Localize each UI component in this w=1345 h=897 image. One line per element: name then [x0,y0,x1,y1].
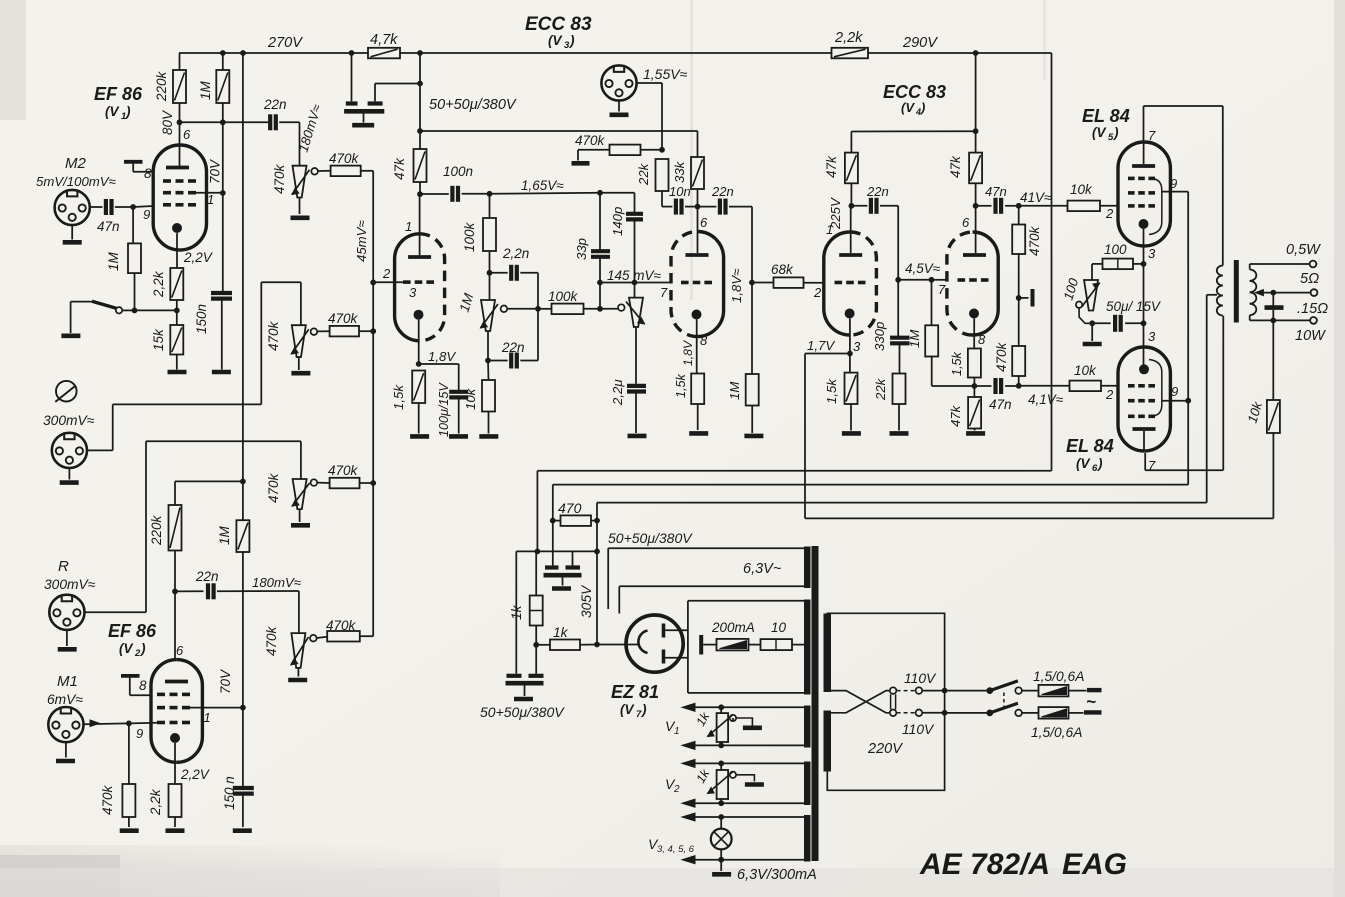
wire V2 cathode lead [174,743,176,784]
wire R3 to bus [360,482,374,484]
wire 47k V3 feed [419,53,421,149]
wire screens line [553,484,1188,486]
wiper 1k V2 [730,772,736,778]
switch input shorting [132,308,138,314]
resistor 470k (V3b grid ref) [578,149,610,151]
svg-text:10: 10 [771,620,787,635]
svg-text:1,5k: 1,5k [391,384,406,410]
resistor 1M (V4 grid leak) [746,374,759,406]
svg-text:7: 7 [1148,128,1156,143]
svg-text:2: 2 [1105,206,1114,221]
resistor 2.2k (V1 cathode) [170,268,183,300]
wire V3b pin6 anode [697,207,699,253]
fuse 200mA [703,644,716,646]
tube EL84 V5 outline [1144,142,1170,246]
svg-text:1k: 1k [553,625,569,640]
wire V2 pin6 lead [174,551,176,661]
svg-text:M1: M1 [57,673,78,690]
svg-text:2,2μ: 2,2μ [610,379,625,406]
svg-text:): ) [568,33,575,48]
svg-text:33k: 33k [672,160,687,183]
wire 6.3V heater loop [608,547,804,549]
svg-text:300mV≈: 300mV≈ [44,577,96,592]
capacitor 2.2u (P6 foot) [635,327,637,384]
wiper P2 [311,328,318,335]
wire V1 pin8 shield bracket [124,160,143,164]
wire 22n to P4 [298,591,300,633]
svg-text:10W: 10W [1295,328,1326,344]
svg-text:(V: (V [620,702,634,717]
resistor 1k (horizontal) [536,644,550,646]
resistor 220k (V2 anode load) [169,505,182,551]
resistor 10k (V5 grid stopper) [1019,205,1068,207]
wire V1 pin1 (screen) to 70V line [189,192,223,194]
svg-text:1,65V≈: 1,65V≈ [521,178,564,193]
terminal mains bottom [1069,712,1084,714]
svg-text:70V: 70V [218,668,233,694]
svg-text:47k: 47k [948,404,963,427]
tube V2 anode bar [165,680,188,684]
wire V1 anode node 80V [180,121,270,123]
switch mains double pole [986,687,993,694]
tube V4b grid row [958,278,966,282]
capacitor chassis tab (V5 grid) [1019,297,1029,299]
resistor 100k (to tone pot) [489,194,491,218]
svg-text:145 mV≈: 145 mV≈ [607,268,662,283]
svg-text:EL 84: EL 84 [1082,106,1130,126]
svg-text:2: 2 [382,266,391,281]
svg-text:100n: 100n [443,164,473,179]
tube V5 grid rows [1128,177,1135,181]
resistor 22k (V4b grid) [893,374,906,405]
svg-text:110V: 110V [904,671,937,686]
transformer PT secondary bars [804,547,811,589]
svg-text:220V: 220V [867,741,903,757]
wire V2 screen feed from 70V line [175,480,243,482]
resistor 470k (V2 grid leak) [128,723,130,784]
connector R input [49,595,84,630]
wire V1 pin9 grid [130,204,136,210]
wire heater V2 row [682,759,695,767]
resistor 47k (V4b cathode lower) [973,386,975,397]
svg-text:4,7k: 4,7k [370,32,398,48]
svg-text:47k: 47k [392,157,407,180]
resistor 10k (V6 grid stopper) [1019,385,1070,387]
junction V4b anode [973,203,979,209]
svg-text:4,5V≈: 4,5V≈ [905,261,941,276]
resistor 22k [656,159,669,191]
svg-text:1: 1 [207,192,214,207]
tube V3a grid row [403,280,411,284]
wire switch to cathode node [135,309,177,311]
tube V4a grid row [835,281,843,285]
transformer OT secondary coil [1250,270,1257,281]
wire 270V supply rail [179,52,368,54]
svg-text:(V: (V [119,641,133,656]
wire heater pilot row [682,813,695,821]
wire NFB return [805,517,1273,519]
resistor 33k [691,157,704,189]
wire V3a grid pin2 [373,281,403,283]
resistor 2.2k (V2 cathode) [169,784,182,817]
svg-text:45mV≈: 45mV≈ [354,220,369,262]
capacitor 22n (V3b out) [698,206,717,208]
wire heater V1 row [682,703,695,711]
transformer PT primary bars [824,614,832,693]
tube V5 cathode [1139,219,1149,229]
svg-text:10n: 10n [669,184,691,199]
svg-text:1M: 1M [106,251,121,271]
wire mixing bus [361,170,374,172]
svg-text:M2: M2 [65,155,86,172]
resistor 2.2k (rail dropper 290V) [832,48,869,59]
wire rail right drop [1051,53,1053,471]
wire V5 pin7 anode [1143,106,1145,142]
wire V3a cathode pin3 [418,320,420,364]
resistor 220k (V1 anode load) [179,53,181,70]
svg-text:1,5k: 1,5k [950,351,964,376]
junction 100n/100k [487,191,493,197]
wire V2 pin8 bracket [121,674,140,678]
wire 1.55V to node [637,82,662,84]
tube EZ81 cathode arc [638,631,647,654]
fuse 1.5/0.6A bottom [1022,712,1039,714]
svg-text:EL 84: EL 84 [1066,436,1114,456]
svg-text:1: 1 [826,222,833,237]
resistor 1M (V2 screen feed) [236,520,249,552]
svg-text:470k: 470k [1027,225,1042,256]
svg-text:8: 8 [978,332,986,347]
tube ECC83 V4a outline [850,232,876,335]
wire V4b cathode pin8 [973,319,975,349]
tube V3b anode bar [686,253,709,257]
svg-text:22n: 22n [711,184,734,199]
svg-text:6: 6 [183,127,191,142]
svg-text:6: 6 [962,215,970,230]
ground P4 [297,668,299,677]
transformer OT core [1234,260,1239,323]
svg-text:2: 2 [134,648,141,659]
resistor 1.5k (V4a cathode) [845,373,858,404]
junction hum/ground [1089,320,1095,326]
svg-text:2: 2 [1105,387,1114,402]
potentiometer 470k P1 [293,166,307,198]
tube V1 anode bar [166,166,189,170]
connector M2 input [55,190,90,225]
capacitor 150n (V2 screen decoupling) [233,786,254,790]
svg-text:150 n: 150 n [222,776,237,810]
svg-text:10k: 10k [1074,363,1097,378]
resistor 1.5k (V3a cathode) [412,371,425,404]
potentiometer 1k (V2 hum) [720,763,722,770]
junction rail/70V line [240,50,246,56]
wire phono to P2 [87,449,113,451]
wire selector dashed [897,690,916,692]
capacitor 100n (coupling) [420,193,449,195]
svg-text:22n: 22n [866,184,889,199]
tube V6 cathode [1139,364,1149,374]
svg-text:ECC 83: ECC 83 [883,82,946,102]
tube V3a anode bar [408,255,431,259]
svg-text:EF 86: EF 86 [94,84,143,104]
resistor 1.5k (V4b cathode) [968,349,981,378]
tube V4b anode bar [963,253,986,257]
capacitor 2.2n (tone) [490,272,508,274]
svg-text:R: R [58,558,69,575]
capacitor 50+50u/380V (screen filter) [552,521,554,566]
tube EZ81 plate top [662,624,666,638]
wiper P4 [310,635,317,642]
potentiometer 1k (V1 hum) [720,707,722,713]
transformer PT core [812,546,819,861]
tube V5 anode bar [1132,164,1155,168]
resistor 470k (mix R1) [331,166,361,177]
tube EL84 V6 outline [1144,347,1170,451]
svg-text:220k: 220k [154,70,169,102]
svg-text:470k: 470k [272,163,287,194]
svg-text:470k: 470k [266,472,281,503]
resistor 470 (screen feed) [550,518,556,524]
resistor 470k (mix R4) [327,631,360,642]
svg-text:47n: 47n [989,397,1012,412]
svg-text:EZ 81: EZ 81 [611,682,659,702]
junction rail/filter cap [349,50,355,56]
resistor .15 ohm [1272,293,1274,306]
wire 145mV to V3b grid [600,282,671,284]
switch voltage selector link [890,687,897,694]
svg-text:2,2V: 2,2V [183,250,214,265]
svg-text:0,5W: 0,5W [1286,242,1321,258]
svg-text:1,5/0,6A: 1,5/0,6A [1033,669,1084,684]
svg-text:2,2k: 2,2k [151,270,166,298]
svg-text:1M: 1M [217,525,232,545]
svg-text:6,3V/300mA: 6,3V/300mA [737,867,817,883]
svg-text:9: 9 [1170,176,1177,191]
svg-text:5Ω: 5Ω [1300,271,1319,287]
svg-text:6,3V~: 6,3V~ [743,561,782,577]
svg-text:8: 8 [144,166,152,181]
junction V4a anode [849,203,855,209]
svg-text:2,2k: 2,2k [834,30,863,46]
wire 100 to hum pot [1092,263,1103,265]
svg-text:2: 2 [673,784,680,795]
tube V5 shield curve [1149,178,1162,234]
ground pilot [720,860,722,871]
capacitor 22n (V2 output) [175,590,204,592]
svg-text:4,1V≈: 4,1V≈ [1028,392,1064,407]
wiper P1 [311,168,318,175]
svg-text:50+50μ/380V: 50+50μ/380V [608,530,693,546]
resistor 1k (vertical) [535,551,537,595]
wire B+ to OT center tap [597,502,1207,504]
capacitor 33p [599,193,601,250]
junction V3b anode node [695,204,701,210]
wire R4 to bus end [360,635,373,637]
svg-text:50+50μ/380V: 50+50μ/380V [429,97,517,113]
resistor 47k (V4b anode) [969,153,982,184]
resistor 10k (NFB) [1272,320,1274,400]
svg-text:(V: (V [548,33,562,48]
svg-text:41V≈: 41V≈ [1020,190,1052,205]
wire B+ node [537,550,597,552]
svg-text:3: 3 [1148,246,1156,261]
potentiometer 470k P3 [293,479,307,509]
svg-text:22n: 22n [195,569,219,584]
svg-text:10k: 10k [463,387,478,410]
svg-text:AE 782/A: AE 782/A [919,848,1050,881]
wire V6 pin7 anode [1144,453,1146,470]
capacitor 22n (tone lower) [487,331,489,361]
tube V1 cathode [172,223,182,233]
wire 70V line (long vertical) [242,53,244,520]
svg-text:): ) [1096,456,1103,471]
ground P2 [298,357,300,370]
svg-text:EF 86: EF 86 [108,621,157,641]
capacitor 330p [897,280,899,337]
resistor 100 (cathode) [1103,259,1134,270]
svg-text:6: 6 [176,643,184,658]
svg-text:9: 9 [143,207,150,222]
wire M1 to V2 pin9 [90,720,100,727]
transformer OT primary coil [1217,266,1223,276]
svg-text:3, 4, 5, 6: 3, 4, 5, 6 [657,844,695,855]
svg-text:ECC 83: ECC 83 [525,14,592,35]
svg-text:470k: 470k [575,133,606,148]
capacitor 150n (V1 screen decoupling) [211,291,232,295]
lamp pilot [720,817,722,829]
svg-text:50+50μ/380V: 50+50μ/380V [480,704,565,720]
wire EZ81 plates to HV winding [665,629,688,631]
tube ECC83 V3b outline [671,231,697,336]
resistor 1M (V1 grid leak) [132,207,134,243]
svg-text:22k: 22k [873,377,888,401]
fuse 1.5/0.6A top [1022,690,1039,692]
svg-text:(V: (V [1076,456,1090,471]
wire to pot P1 [299,122,301,165]
potentiometer 100 (hum) [1084,280,1098,311]
tube V2 grid rows [157,693,165,697]
tube EF86 V2 outline [177,660,203,763]
svg-text:1M: 1M [907,330,922,348]
svg-text:1,55V≈: 1,55V≈ [643,66,688,82]
svg-text:15k: 15k [151,328,166,351]
svg-text:): ) [1112,125,1119,140]
svg-text:): ) [640,702,647,717]
connector 1.55V (test) [601,65,636,100]
resistor 1.5k (V3b cathode) [691,374,704,405]
svg-text:470k: 470k [329,151,360,166]
tube V4a cathode [845,309,855,319]
wire OT center tap [1207,294,1217,296]
svg-text:300mV≈: 300mV≈ [43,413,95,428]
svg-text:(V: (V [1092,125,1106,140]
wire R to P3 [85,611,147,613]
svg-text:10k: 10k [1070,182,1093,197]
tube V3b cathode [692,310,702,320]
tube V6 grid rows [1128,384,1135,388]
wire V5 pin9 screen [1162,191,1188,193]
svg-text:(V: (V [901,100,915,115]
wire V2 pin1 to 70V line [189,707,243,709]
junction rail/47k V4b [973,50,979,56]
tube EZ81 V7 outline [626,615,683,672]
capacitor 140p [626,212,643,216]
wire V1 cathode lead [176,233,178,268]
resistor 470k (V6 grid leak) [1018,298,1020,346]
wire HV winding loop [687,601,689,693]
tube V4a anode bar [839,253,862,257]
ground P1 [299,198,301,215]
svg-text:6: 6 [700,215,708,230]
svg-text:1M: 1M [727,382,742,400]
wire treble node [490,193,601,194]
wire 70V line upper (1M to 150n) [222,103,224,122]
wire V6 pin9 screen [1162,400,1188,402]
svg-text:1,8V: 1,8V [428,349,456,364]
svg-text:7: 7 [1148,458,1156,473]
svg-text:1,5/0,6A: 1,5/0,6A [1031,725,1082,740]
svg-text:100k: 100k [462,221,477,252]
svg-text:330p: 330p [872,322,887,351]
svg-text:2,2n: 2,2n [502,246,529,261]
svg-text:9: 9 [136,726,143,741]
wire OT secondary bottom 10W [1249,315,1251,320]
svg-text:470k: 470k [994,341,1009,372]
tube V2 cathode [170,733,180,743]
svg-text:470k: 470k [266,320,281,351]
svg-text:): ) [124,104,131,119]
ground P3 [299,509,301,522]
resistor 15k [170,325,183,355]
wire common cathode to V6 [1143,323,1145,364]
wiper 1k V1 [730,715,736,721]
capacitor 50+50u/380V (input filter) [516,550,536,552]
svg-text:470k: 470k [264,625,279,656]
svg-text:1,8V≈: 1,8V≈ [729,269,744,303]
svg-text:100: 100 [1104,242,1127,257]
tube V6 anode bar [1133,427,1156,431]
svg-text:6mV≈: 6mV≈ [47,692,83,707]
capacitor 47n (M2 input) [90,206,103,208]
junction bus/V3 grid [370,280,376,286]
svg-text:(V: (V [105,104,119,119]
svg-text:1: 1 [674,726,680,737]
svg-text:80V: 80V [160,109,175,135]
pickup symbol (phono) [56,381,77,402]
svg-text:47k: 47k [948,155,963,178]
wire 5ohm tap [1255,290,1263,296]
svg-text:~: ~ [1086,692,1096,711]
svg-text:110V: 110V [902,722,935,737]
wiper P5 [501,306,508,313]
capacitor 10n [662,206,672,208]
tube EF86 V1 outline [180,145,207,250]
resistor 10k (P5 lower) [487,361,490,381]
wire V1 pin6 lead [179,122,181,166]
svg-text:.15Ω: .15Ω [1297,301,1328,317]
capacitor 22n (V4a out) [851,205,867,207]
svg-text:68k: 68k [771,262,794,277]
wire 22n to V4b grid [897,206,899,280]
svg-text:470k: 470k [326,618,357,633]
svg-text:8: 8 [700,333,708,348]
svg-text:100k: 100k [548,289,579,304]
svg-text:180mV≈: 180mV≈ [252,575,301,590]
wire EZ81 cathode out [597,644,640,646]
tube V3b grid row [681,281,689,285]
svg-text:1: 1 [204,710,211,725]
capacitor 50+50u/380V (main filter) [351,53,353,101]
